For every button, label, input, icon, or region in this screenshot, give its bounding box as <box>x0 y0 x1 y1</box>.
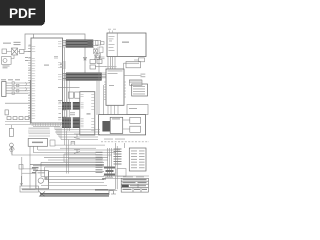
junction cluster bottom-right <box>104 167 115 176</box>
wire crystal to node <box>124 60 140 69</box>
display X1 <box>28 139 47 147</box>
U1 label <box>44 65 49 66</box>
box above M1 marks <box>129 108 137 109</box>
capacitor C8 <box>130 117 141 123</box>
nested loop lower set <box>41 158 108 183</box>
nested wire loop upper <box>11 150 120 155</box>
junction cluster left of buzzer <box>32 167 39 173</box>
ladder mid labels <box>59 102 76 118</box>
wire right mid <box>124 75 142 77</box>
note text above dashes <box>104 138 125 141</box>
wire to U1 <box>24 51 31 53</box>
capacitor C2 <box>5 110 8 115</box>
relay K1 body <box>110 117 123 133</box>
title row above <box>103 176 149 178</box>
wire verticals mid bottom-right <box>108 148 112 177</box>
U5 top wires <box>108 57 115 70</box>
ground bottom left <box>9 147 14 153</box>
capacitor C12 small box <box>117 169 126 177</box>
note text row <box>105 176 144 177</box>
buzzer box LS1 <box>36 171 49 189</box>
wire verticals U5 to M1 <box>108 105 118 114</box>
U1 pin number smudge left <box>29 45 31 118</box>
X1 label <box>32 142 43 144</box>
title block bold name <box>122 185 129 187</box>
IC U5 <box>106 69 124 105</box>
wire top net from power input to D1 <box>25 34 85 56</box>
rectifier box <box>20 50 25 54</box>
U1 left pins <box>28 46 31 118</box>
label under AC source <box>3 66 10 69</box>
bus B1 <box>66 40 93 48</box>
fuse F1 <box>2 49 7 54</box>
transistor Q2 <box>74 150 80 154</box>
IC U1 <box>31 38 63 123</box>
wire under resistor row <box>5 122 30 125</box>
bus B2 <box>66 73 102 81</box>
U1 right pin labels mid <box>60 64 63 68</box>
U5 inner text <box>108 71 123 87</box>
capacitor C9 <box>130 126 141 132</box>
capacitor C4 inside right of U1 <box>54 57 58 59</box>
wire B2 to U5 <box>102 73 107 78</box>
AC source box <box>2 57 12 65</box>
resistor ladder RL2 <box>62 118 80 128</box>
J5 inner rows <box>133 86 145 94</box>
module A1 corner text <box>109 40 112 43</box>
module A1 label <box>122 42 129 43</box>
wire vertical x64 <box>65 48 67 132</box>
net labels above J1 <box>1 79 20 80</box>
wire vertical right bottom <box>116 143 125 189</box>
small box left of U5 top <box>95 55 100 59</box>
wire R3 top <box>10 125 12 128</box>
PDF badge <box>0 0 45 26</box>
transformer T1 <box>12 48 18 55</box>
U1 inner pin name column <box>32 46 36 119</box>
note box text <box>22 188 36 189</box>
node crystal network Y1 <box>93 41 105 61</box>
net label column right <box>114 149 122 165</box>
wire arrow bottom left <box>20 176 23 185</box>
wire K1 to caps <box>123 120 130 129</box>
box above M1 right <box>127 105 148 115</box>
LED DS1 <box>10 143 14 147</box>
U5 left pins <box>104 82 126 100</box>
U1 bottom pin labels <box>31 124 62 127</box>
relay K1 coil <box>102 121 110 132</box>
net label small top <box>102 178 106 180</box>
connector J4 <box>130 80 143 85</box>
resistor row R2 <box>7 117 29 120</box>
wire lower left bus <box>5 80 30 125</box>
wire vertical right of U6 <box>97 56 104 115</box>
connector J1 left edge <box>2 82 6 97</box>
bottom rail wire <box>22 186 108 190</box>
U6 label <box>87 113 91 114</box>
capacitor C1 <box>7 51 21 53</box>
title block text <box>123 179 148 190</box>
junction X bottom <box>39 192 45 197</box>
wire to buzzer <box>21 169 36 173</box>
dashed separator <box>101 141 149 143</box>
wire verticals through ladders <box>67 81 69 132</box>
U6 inner pin names <box>81 94 95 131</box>
ladder white gaps <box>71 102 73 128</box>
crystal box right <box>139 58 145 62</box>
wire dark pair bottom center <box>30 164 104 165</box>
capacitor C11 <box>71 141 75 143</box>
net label column left <box>96 152 103 173</box>
wire elbow to bottom rail <box>95 189 117 190</box>
resistor R3 vertical <box>9 128 13 136</box>
AC source symbol <box>3 59 7 63</box>
wire into U5 left top <box>95 66 106 68</box>
antenna E1 <box>10 146 15 155</box>
nested loop lower verticals <box>41 162 49 182</box>
vertical wires bottom center <box>55 126 75 174</box>
ground bus band bottom <box>40 193 109 196</box>
K1 label <box>112 118 120 119</box>
nested loop verticals <box>22 146 38 190</box>
U1 bottom pin ticks <box>33 123 61 126</box>
J1 wires <box>6 83 28 93</box>
capacitor C7 <box>141 74 146 77</box>
title block <box>121 178 148 192</box>
wire AC to fuse <box>11 55 14 59</box>
module A1 big box top right <box>107 33 146 57</box>
buzzer circle <box>38 178 43 183</box>
wire above U6 <box>58 88 80 101</box>
resistor R9 right of X1 <box>50 140 55 146</box>
note box bottom left <box>20 186 39 192</box>
module A1 divider <box>116 33 118 57</box>
op-amp U2 region small parts right of AC <box>25 57 28 61</box>
bus end hook <box>109 191 116 196</box>
small box group above U6 <box>68 92 79 98</box>
label AC input text <box>3 42 21 45</box>
diode D1 <box>84 56 87 73</box>
IC U6 tall <box>80 92 95 135</box>
bottom wire harness <box>55 130 105 162</box>
module M1 box <box>99 115 146 135</box>
bus B2 end verticals <box>63 73 102 81</box>
hatch pins above X1 <box>29 130 51 137</box>
U1 inner right pin names <box>58 41 62 120</box>
svg-text:PDF: PDF <box>9 6 36 21</box>
module A1 left cell text <box>109 36 115 51</box>
buzzer inner marks <box>38 172 48 180</box>
U1 right pins <box>63 41 67 122</box>
bus B1 end junction box <box>88 40 93 47</box>
resistor row R network <box>129 80 142 83</box>
capacitor C5 <box>126 62 141 68</box>
resistor ladder RL1 <box>62 102 80 109</box>
hatch label row <box>29 127 50 130</box>
transistor Q1 <box>74 134 80 139</box>
diode pack D2 <box>12 82 27 95</box>
wire stub into U1 top <box>33 34 35 38</box>
connector J6 right <box>129 148 146 171</box>
bus B1 stubs to U1 <box>63 40 94 48</box>
resistor network below A1 <box>90 60 102 70</box>
switch S1 small box <box>19 165 23 170</box>
J6 pin rows <box>131 151 145 169</box>
U5 top pin labels <box>106 65 117 68</box>
connector J5 wide <box>132 84 148 96</box>
module A1 top pin stubs <box>110 31 113 34</box>
module A1 top pin text <box>108 28 116 31</box>
